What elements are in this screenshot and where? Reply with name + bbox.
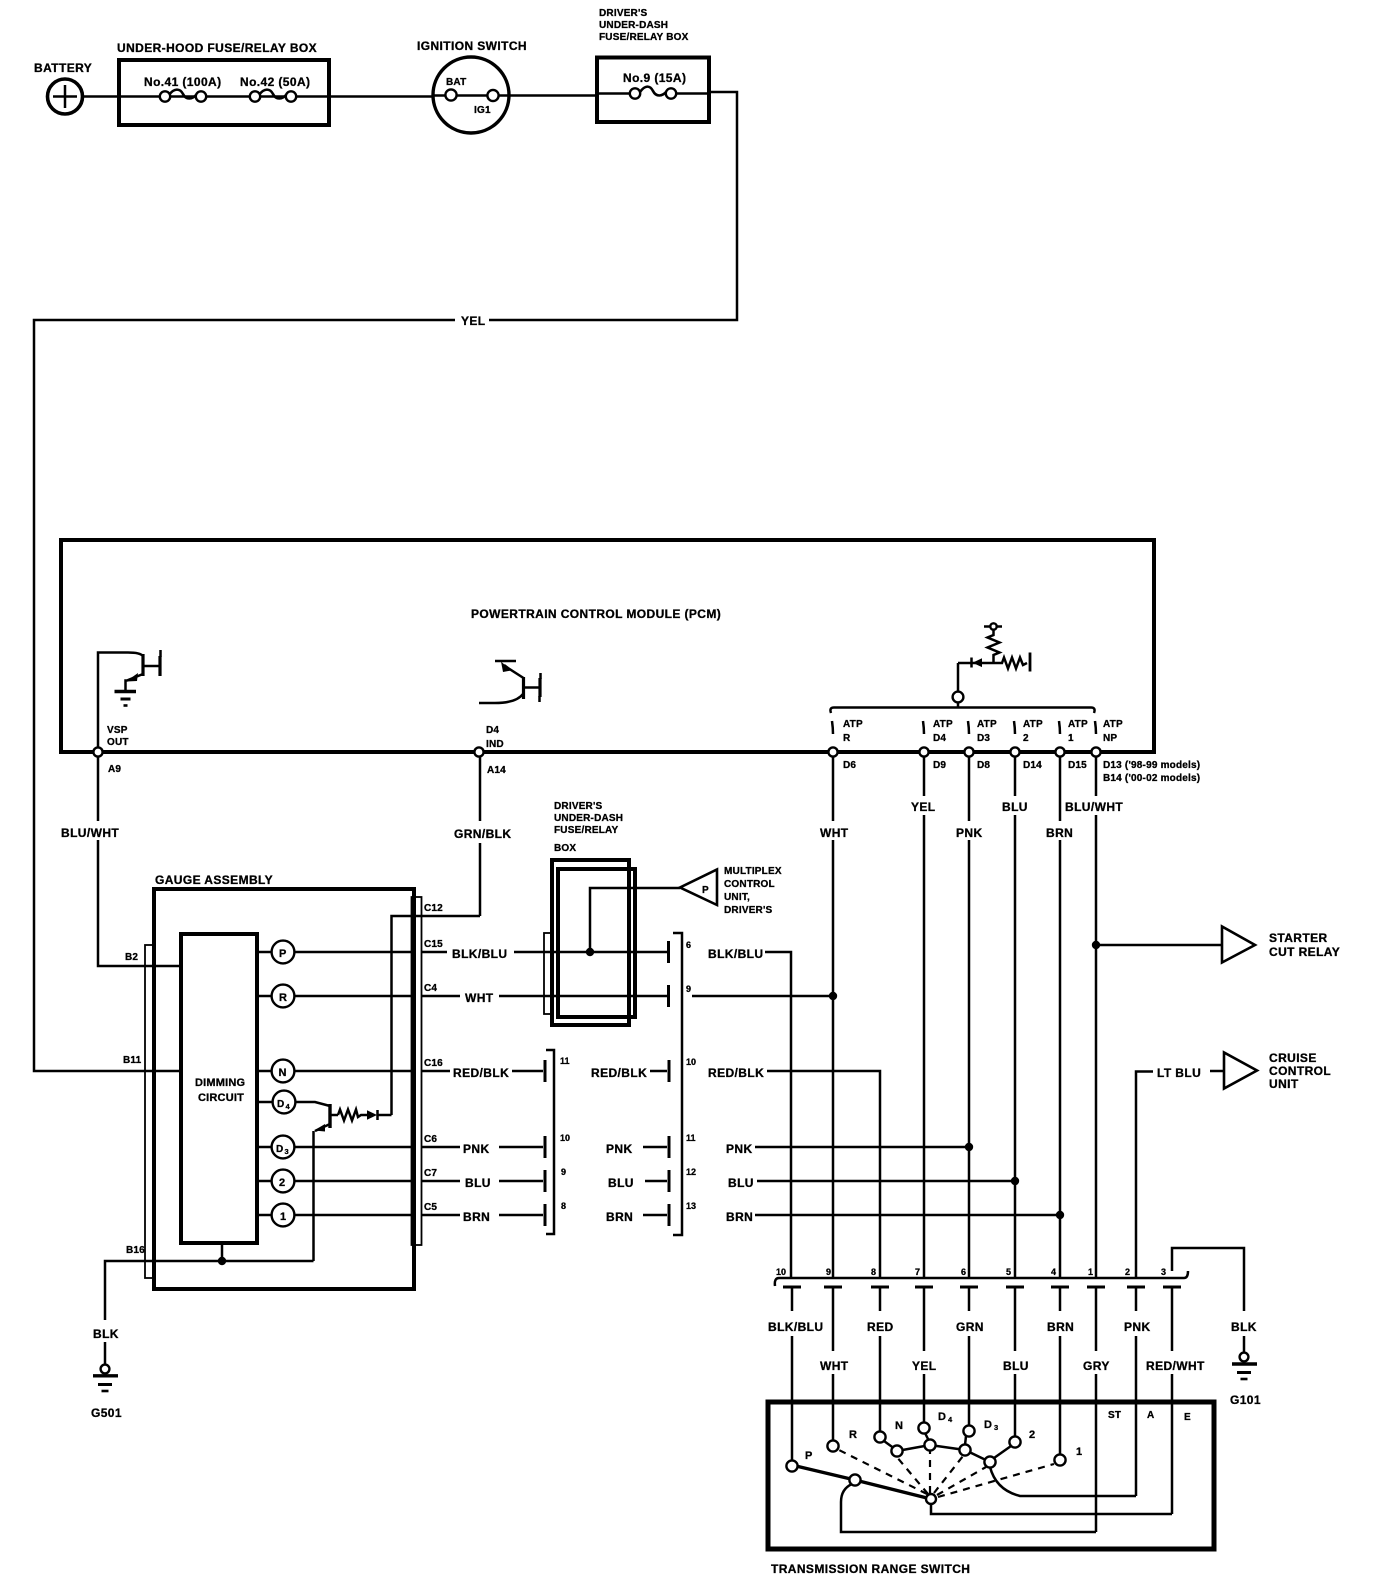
svg-text:BLK: BLK [1231,1320,1257,1334]
svg-text:ATP: ATP [1023,719,1043,730]
wire PNK (pin 11 to junction) [755,1146,969,1149]
svg-text:D: D [984,1419,992,1431]
pin 2 [1125,1267,1145,1311]
contact 1 [1054,1446,1082,1466]
wire to switch R [832,1374,835,1441]
indicator D4 [273,1091,296,1114]
svg-text:BRN: BRN [726,1210,753,1224]
pin C5 [422,1202,461,1215]
label BLK/BLU [452,947,507,961]
connector B (gauge left) [145,945,153,1278]
svg-text:YEL: YEL [911,800,936,814]
svg-text:D14: D14 [1023,760,1042,771]
wire BLK/BLU into box [514,951,668,954]
svg-text:POWERTRAIN CONTROL MODULE (PCM: POWERTRAIN CONTROL MODULE (PCM) [471,607,721,621]
label BRN [1047,1320,1074,1334]
svg-text:11: 11 [560,1056,570,1066]
pin A9 / VSP OUT [93,725,128,775]
ignition switch [417,39,597,133]
svg-text:UNDER-HOOD FUSE/RELAY BOX: UNDER-HOOD FUSE/RELAY BOX [117,41,317,55]
svg-text:13: 13 [686,1201,696,1211]
label YEL [911,800,936,814]
pin B2 [125,952,138,963]
svg-text:MULTIPLEX: MULTIPLEX [724,866,782,877]
label RED/BLK [708,1066,764,1080]
cruise control unit (triangle) [1224,1051,1331,1091]
svg-text:G501: G501 [91,1406,122,1420]
svg-text:A9: A9 [108,764,121,775]
svg-text:P: P [702,885,709,896]
svg-text:R: R [843,733,851,744]
label BLU [1002,800,1028,814]
label BLU/WHT [1065,800,1123,814]
wire C12 net (Q3 to A14 / GRN/BLK) [392,757,481,1116]
svg-text:YEL: YEL [912,1359,937,1373]
svg-text:P: P [805,1450,813,1462]
svg-text:D: D [276,1144,283,1155]
svg-text:R: R [279,992,287,1004]
diode D2 [367,1110,392,1120]
label PNK [726,1142,753,1156]
svg-text:RED/WHT: RED/WHT [1146,1359,1205,1373]
svg-text:D4: D4 [933,733,946,744]
svg-text:ATP: ATP [1068,719,1088,730]
multiplex control unit, driver's (triangle P) [680,866,782,916]
wire to starter cut relay [1096,944,1222,947]
label RED [867,1320,894,1334]
transistor Q2 (D4 IND driver) [479,661,541,703]
wire battery to ignition switch [83,95,435,98]
svg-text:BRN: BRN [606,1210,633,1224]
svg-text:IGNITION SWITCH: IGNITION SWITCH [417,39,527,53]
diode D1 (wiper arrow) [958,658,994,668]
wire LT BLU (cruise control to pin 2) [1136,1071,1224,1278]
resistor R2 (horizontal) [994,653,1031,672]
transistor Q1 (VSP OUT driver) [98,650,161,756]
svg-text:CONTROL: CONTROL [1269,1064,1331,1078]
svg-text:B11: B11 [123,1055,142,1066]
svg-text:9: 9 [561,1167,566,1177]
svg-text:BLU/WHT: BLU/WHT [1065,800,1123,814]
label BLU [728,1176,754,1190]
svg-text:BOX: BOX [554,843,576,854]
pin 10 [776,1267,801,1311]
wire wiper common to E column [931,1503,1172,1514]
wire BRN to connector [499,1204,545,1226]
battery [34,61,92,114]
wire BLU to connector [499,1170,545,1192]
svg-text:8: 8 [871,1267,876,1277]
label GRN/BLK [454,827,511,841]
svg-text:P: P [279,948,287,960]
svg-text:DIMMING: DIMMING [195,1077,245,1089]
transistor Q3 (dimming output) [314,1104,339,1261]
svg-text:BLU: BLU [1003,1359,1029,1373]
connector terminals (right of under-dash box) [667,941,670,1007]
svg-text:C16: C16 [424,1058,443,1069]
wire D4 row [259,1102,330,1106]
svg-text:DRIVER'S: DRIVER'S [599,8,648,19]
pin D6 / ATP R [828,719,863,771]
svg-text:GAUGE ASSEMBLY: GAUGE ASSEMBLY [155,873,273,887]
svg-text:C6: C6 [424,1134,437,1145]
svg-text:No.42 (50A): No.42 (50A) [240,75,310,89]
wire YEL: fuse box to gauge B11 [34,92,737,1071]
pin 4 [1051,1267,1069,1311]
svg-text:No.41 (100A): No.41 (100A) [144,75,222,89]
connector C (gauge right) [412,897,422,1245]
label RED/BLK [453,1066,509,1080]
svg-text:LT BLU: LT BLU [1157,1066,1201,1080]
svg-text:C15: C15 [424,939,443,950]
starter cut relay (triangle) [1222,927,1340,963]
svg-text:D8: D8 [977,760,990,771]
svg-text:D4: D4 [486,725,499,736]
pin stubs above ATP pins [832,721,1096,734]
svg-text:ATP: ATP [977,719,997,730]
inner contact (D4) [924,1439,935,1450]
pin 11 [686,1133,696,1143]
pin C15 [422,939,448,952]
svg-text:GRN/BLK: GRN/BLK [454,827,511,841]
label WHT [820,826,849,840]
svg-text:11: 11 [686,1133,696,1143]
label BRN [606,1210,633,1224]
svg-text:9: 9 [686,984,691,994]
contact N [874,1420,903,1443]
pin 9 [686,984,691,994]
svg-text:BAT: BAT [446,77,466,88]
label BLU [608,1176,634,1190]
wire pin 3 to ground G101 [1172,1248,1244,1352]
svg-text:C7: C7 [424,1168,437,1179]
svg-text:BLK/BLU: BLK/BLU [768,1320,823,1334]
label BRN [726,1210,753,1224]
svg-text:CONTROL: CONTROL [724,879,775,890]
pin 10 [560,1133,570,1143]
wire to switch ST [1095,1374,1098,1532]
svg-text:3: 3 [285,1147,289,1156]
svg-text:B2: B2 [125,952,138,963]
wire YEL (D9 to pin 7) [923,757,926,1279]
label E [1184,1412,1191,1423]
svg-text:N: N [279,1067,287,1079]
svg-text:BLK/BLU: BLK/BLU [452,947,507,961]
pin 9 [824,1267,842,1351]
svg-text:6: 6 [686,940,691,950]
wire RED/BLK (pin 10 to pin 8 below) [767,1071,880,1278]
pin 6 [686,940,691,950]
svg-text:UNIT,: UNIT, [724,892,750,903]
svg-text:ATP: ATP [933,719,953,730]
driver's under-dash fuse/relay box (top) [597,8,709,122]
svg-text:N: N [895,1420,903,1432]
node (ATP common sense node) [953,663,964,707]
pin D13 / ATP NP [1091,719,1200,784]
powertrain control module (PCM) box [61,540,1154,752]
wire to switch E [1171,1374,1174,1514]
svg-text:3: 3 [1161,1267,1166,1277]
label YEL [461,314,486,328]
label PNK [1124,1320,1151,1334]
pin B11 [123,1055,142,1066]
pin C12 [424,903,443,914]
svg-text:2: 2 [1023,733,1029,744]
label WHT [465,991,494,1005]
label YEL [912,1359,937,1373]
wire D3 row [259,1146,411,1149]
pin C16 [422,1058,451,1071]
pin 8 [871,1267,889,1311]
wire BLK/BLU (pin 6 to pin 10 below) [765,952,791,1278]
label WHT [820,1359,849,1373]
driver's under-dash fuse/relay box (middle) [544,801,635,1025]
svg-text:BATTERY: BATTERY [34,61,92,75]
svg-text:D9: D9 [933,760,946,771]
indicator 2 [272,1170,295,1193]
indicator R [272,985,295,1008]
ground G501 [91,1365,122,1420]
dimming circuit box [181,934,257,1243]
svg-text:RED: RED [867,1320,894,1334]
svg-text:C5: C5 [424,1202,437,1213]
svg-text:9: 9 [826,1267,831,1277]
wire P row [259,951,411,954]
wire to switch 1 [1059,1336,1062,1455]
svg-text:CRUISE: CRUISE [1269,1051,1317,1065]
svg-text:RED/BLK: RED/BLK [453,1066,509,1080]
label GRY [1083,1359,1110,1373]
label GRN [956,1320,984,1334]
svg-text:2: 2 [1029,1429,1035,1441]
svg-text:10: 10 [776,1267,786,1277]
svg-text:OUT: OUT [107,737,129,748]
pin D14 / ATP 2 [1010,719,1043,771]
resistor R3 [338,1110,367,1121]
svg-text:1: 1 [1088,1267,1093,1277]
svg-text:R: R [849,1429,857,1441]
wire BLU/WHT (D13 to pin 1) [1092,757,1100,1279]
label BRN [1046,826,1073,840]
svg-text:10: 10 [560,1133,570,1143]
svg-text:C4: C4 [424,983,437,994]
pin A14 / D4 IND [474,725,506,776]
svg-text:7: 7 [915,1267,920,1277]
pin D15 / ATP 1 [1055,719,1088,771]
label BLK [93,1327,119,1341]
switch wiper (solid, position P) [796,1466,931,1499]
svg-text:E: E [1184,1412,1191,1423]
svg-text:3: 3 [994,1423,998,1432]
svg-text:UNDER-DASH: UNDER-DASH [554,813,623,824]
wire to multiplex control unit [586,888,680,956]
dashed contact lines [839,1450,1054,1497]
wire PNK mid [643,1136,669,1158]
svg-text:BLU: BLU [608,1176,634,1190]
svg-text:C12: C12 [424,903,443,914]
svg-text:RED/BLK: RED/BLK [591,1066,647,1080]
svg-text:GRY: GRY [1083,1359,1110,1373]
svg-text:1: 1 [1076,1446,1082,1458]
svg-text:ATP: ATP [1103,719,1123,730]
pin 9 [561,1167,566,1177]
label BLK/BLU [708,947,763,961]
svg-text:DRIVER'S: DRIVER'S [554,801,603,812]
svg-text:FUSE/RELAY BOX: FUSE/RELAY BOX [599,32,689,43]
svg-text:D: D [938,1411,946,1423]
svg-text:BLU/WHT: BLU/WHT [61,826,119,840]
svg-text:CIRCUIT: CIRCUIT [198,1092,244,1104]
pin C7 [422,1168,461,1181]
svg-text:PNK: PNK [956,826,983,840]
svg-text:2: 2 [1125,1267,1130,1277]
wire P-contact to ST column [841,1484,1096,1532]
svg-text:BRN: BRN [1046,826,1073,840]
svg-text:BLK: BLK [93,1327,119,1341]
label RED/WHT [1146,1359,1205,1373]
svg-text:D6: D6 [843,760,856,771]
svg-text:B16: B16 [126,1245,145,1256]
inner contact (2) [984,1456,995,1467]
wire 1 row [259,1214,411,1217]
wire BLU mid [645,1170,669,1192]
svg-text:IND: IND [486,739,504,750]
svg-text:ST: ST [1108,1410,1121,1421]
svg-text:D15: D15 [1068,760,1087,771]
label BLK/BLU [768,1320,823,1334]
common wiper contact [926,1494,936,1504]
wire to switch N [879,1336,882,1432]
label A [1147,1410,1154,1421]
svg-text:8: 8 [561,1201,566,1211]
wire BRN (D15 to pin 4) [1056,757,1064,1279]
svg-text:PNK: PNK [726,1142,753,1156]
contact D4 [918,1411,953,1434]
svg-text:PNK: PNK [1124,1320,1151,1334]
label RED/BLK [591,1066,647,1080]
inner contact (P wiper) [849,1474,860,1485]
pin 13 [686,1201,696,1211]
connector bracket (right, pins 6/9/10/11/12/13) [673,933,682,1235]
indicator P [272,941,295,964]
wire N row [259,1070,411,1073]
pin C6 [422,1134,461,1147]
inner contact (N) [891,1445,902,1456]
label BRN [463,1210,490,1224]
svg-text:IG1: IG1 [474,105,491,116]
pin 5 [1006,1267,1024,1351]
label PNK [606,1142,633,1156]
svg-text:FUSE/RELAY: FUSE/RELAY [554,825,619,836]
pin 11 [560,1056,570,1066]
wire 2-contact chain to A column [990,1467,1136,1496]
wire to switch D3 [968,1336,971,1427]
label BLU/WHT [61,826,119,840]
svg-text:WHT: WHT [465,991,494,1005]
svg-text:D: D [277,1099,284,1110]
pin D8 / ATP D3 [964,719,997,771]
indicator D3 [272,1136,295,1159]
inner contact (D3) [959,1444,970,1455]
svg-text:2: 2 [279,1177,285,1189]
contact P [786,1450,812,1472]
svg-text:BRN: BRN [463,1210,490,1224]
wire BLU/WHT (A9 to gauge B2) [98,757,181,967]
wire to switch 2 [1014,1374,1017,1437]
pin 12 [686,1167,696,1177]
svg-text:PNK: PNK [463,1142,490,1156]
svg-text:BRN: BRN [1047,1320,1074,1334]
svg-text:1: 1 [280,1211,286,1223]
svg-text:1: 1 [1068,733,1074,744]
wire WHT (D6 to pin 9) [829,757,837,1279]
wire WHT (pin 9 to junction) [692,995,833,998]
wire RED/BLK to connector [512,1060,545,1082]
svg-text:5: 5 [1006,1267,1011,1277]
pin C4 [422,983,461,996]
wire WHT into box [499,995,668,998]
svg-text:BLK/BLU: BLK/BLU [708,947,763,961]
ground (inside PCM, Q1 emitter) [115,692,137,706]
svg-text:BLU: BLU [465,1176,491,1190]
contact 2 [1009,1429,1035,1448]
resistor R1 (vertical, pull-up inside PCM) [984,623,1002,663]
wire to switch A [1135,1336,1138,1496]
svg-text:PNK: PNK [606,1142,633,1156]
wire BRN mid [643,1204,669,1226]
solid link N-D4-D3-2 inner contacts [884,1433,1011,1462]
svg-text:YEL: YEL [461,314,486,328]
label BLK [1231,1320,1257,1334]
connector bracket (left, pins 11/10/9/8) [546,1050,554,1234]
svg-text:4: 4 [1051,1267,1056,1277]
label BLU [465,1176,491,1190]
svg-text:6: 6 [961,1267,966,1277]
label PNK [956,826,983,840]
wire R row [259,995,411,998]
wire to switch D4 [923,1374,926,1423]
gauge assembly box [154,873,414,1289]
svg-text:CUT RELAY: CUT RELAY [1269,945,1340,959]
svg-text:G101: G101 [1230,1393,1261,1407]
svg-text:NP: NP [1103,733,1117,744]
svg-text:No.9 (15A): No.9 (15A) [623,71,686,85]
under-hood fuse/relay box [117,41,329,125]
fuse No.42 (50A) [240,75,310,102]
svg-text:A14: A14 [487,765,506,776]
indicator 1 [272,1204,295,1227]
label ST [1108,1410,1121,1421]
fuse No.9 (15A) [623,71,686,99]
svg-text:UNDER-DASH: UNDER-DASH [599,20,668,31]
pin 8 [561,1201,566,1211]
svg-text:VSP: VSP [107,725,128,736]
pin B16 [126,1245,145,1256]
svg-text:UNIT: UNIT [1269,1077,1299,1091]
wire to switch P [791,1336,794,1460]
svg-text:WHT: WHT [820,826,849,840]
svg-text:WHT: WHT [820,1359,849,1373]
svg-text:B14 ('00-02 models): B14 ('00-02 models) [1103,773,1200,784]
svg-text:RED/BLK: RED/BLK [708,1066,764,1080]
svg-text:10: 10 [686,1057,696,1067]
pin 6 [960,1267,978,1311]
pin 1 [1087,1267,1105,1351]
label BLU [1003,1359,1029,1373]
svg-text:STARTER: STARTER [1269,931,1328,945]
svg-text:A: A [1147,1410,1154,1421]
contact D3 [963,1419,998,1437]
